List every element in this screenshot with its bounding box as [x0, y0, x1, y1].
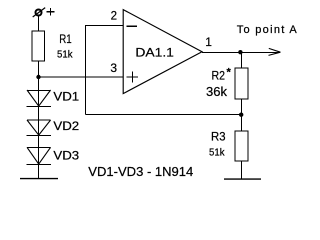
- wire junction to R2: [241, 52, 243, 68]
- inverting input minus: [126, 25, 137, 27]
- diode VD2: [27, 120, 51, 135]
- non-inverting input plus: [127, 71, 138, 82]
- wire pin 2: [86, 25, 124, 27]
- resistor R2: [235, 68, 248, 99]
- wire to pin 3: [39, 76, 124, 78]
- svg-text:3: 3: [110, 61, 117, 75]
- svg-text:2: 2: [111, 11, 117, 23]
- wire feedback horizontal to R2/R3 node: [86, 114, 242, 116]
- node feedback junction: [239, 113, 243, 117]
- svg-text:DA1.1: DA1.1: [135, 45, 174, 59]
- svg-text:VD1: VD1: [53, 92, 79, 104]
- wire R3 to ground: [241, 161, 243, 179]
- input terminal: [33, 8, 46, 17]
- wire terminal to R1: [38, 16, 40, 32]
- arrow head: [269, 48, 281, 55]
- svg-text:36k: 36k: [206, 84, 227, 99]
- svg-text:R1: R1: [59, 32, 72, 46]
- svg-text:VD2: VD2: [53, 121, 79, 133]
- svg-text:R2: R2: [212, 69, 226, 83]
- svg-text:VD1-VD3 - 1N914: VD1-VD3 - 1N914: [88, 165, 193, 179]
- svg-text:51k: 51k: [209, 146, 225, 158]
- svg-text:1: 1: [205, 35, 212, 49]
- ground right: [224, 178, 261, 180]
- plus polarity label: [47, 8, 55, 15]
- wire feedback vertical: [85, 25, 87, 115]
- resistor R1: [32, 31, 45, 61]
- wire R1 through diodes to ground: [38, 61, 40, 179]
- svg-text:VD3: VD3: [53, 151, 79, 163]
- resistor R3: [235, 131, 248, 161]
- node junction R1/VD1/pin3: [36, 75, 40, 79]
- svg-text:*: *: [227, 66, 232, 78]
- svg-text:R3: R3: [211, 130, 226, 144]
- diode VD3: [27, 147, 51, 164]
- output wire: [202, 52, 280, 54]
- svg-text:51k: 51k: [57, 49, 73, 61]
- node output/R2 junction: [238, 50, 242, 54]
- op-amp DA1.1: [123, 10, 202, 94]
- wire R2 to R3: [241, 99, 243, 131]
- diode VD1: [27, 90, 51, 106]
- ground left: [20, 178, 58, 180]
